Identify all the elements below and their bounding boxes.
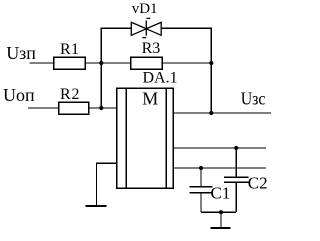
diode VD1 (bidirectional suppressor) (131, 18, 161, 37)
node R1/left bus (99, 61, 103, 65)
node R2/left bus (99, 106, 103, 110)
op-amp block DA.1 (117, 88, 174, 188)
wire top right (diode branch) (161, 27, 211, 29)
wire R2 to DA1 (89, 107, 117, 109)
svg-text:R1: R1 (60, 41, 79, 58)
wire DA1 right pin 3 (173, 167, 266, 169)
svg-text:Uзп: Uзп (6, 43, 36, 63)
wire Uop input (28, 107, 59, 109)
wire left vertical bus (100, 28, 102, 108)
svg-text:DA.1: DA.1 (143, 70, 178, 87)
wire C1 lower lead (200, 193, 202, 212)
wire ground stub (220, 212, 222, 227)
wire bottom rail (201, 211, 236, 213)
node R3/right bus (209, 61, 213, 65)
ground right (210, 227, 230, 229)
ground left (85, 205, 106, 207)
wire right vertical bus (210, 28, 212, 113)
node junction dots (99, 61, 238, 214)
svg-text:C2: C2 (248, 173, 268, 192)
wire R1 to R3 (85, 62, 131, 64)
wire C2 upper lead (235, 148, 237, 177)
wire C2 lower lead (235, 183, 237, 213)
node ground rail (219, 210, 223, 214)
svg-text:Uзс: Uзс (241, 89, 266, 109)
node C2 top (234, 146, 238, 150)
node Uzs/right bus (209, 111, 213, 115)
wire Uzp input (30, 62, 54, 64)
node C1 top (199, 166, 203, 170)
svg-text:M: M (142, 89, 158, 109)
svg-text:vD1: vD1 (132, 1, 158, 17)
wire Uzs output (173, 112, 271, 114)
svg-text:Uоп: Uоп (3, 85, 35, 105)
resistor R3 (131, 57, 163, 69)
capacitor C2 plates (224, 177, 248, 182)
capacitor C1 plates (190, 187, 213, 193)
wire DA1 right pin 2 (173, 147, 266, 149)
resistor R1 (54, 57, 86, 69)
wire C1 upper lead (200, 168, 202, 186)
svg-text:C1: C1 (211, 183, 231, 202)
wire DA1 left pin to ground (97, 163, 117, 206)
wire top left (diode branch) (101, 27, 131, 29)
svg-text:R2: R2 (60, 86, 80, 103)
wire R3 to right bus (162, 62, 211, 64)
resistor R2 (59, 102, 89, 114)
svg-text:R3: R3 (142, 40, 161, 57)
